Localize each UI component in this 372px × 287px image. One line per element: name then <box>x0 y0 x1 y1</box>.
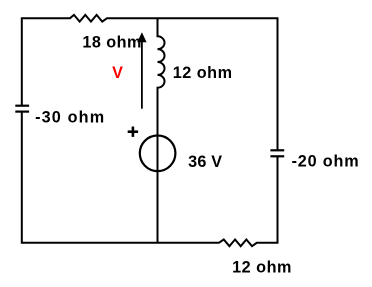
svg-text:18 ohm: 18 ohm <box>82 34 141 52</box>
svg-text:36 V: 36 V <box>188 153 222 171</box>
svg-text:-30 ohm: -30 ohm <box>35 108 104 126</box>
svg-text:V: V <box>112 64 123 82</box>
svg-text:12 ohm: 12 ohm <box>232 259 291 277</box>
svg-text:-20 ohm: -20 ohm <box>292 153 359 171</box>
svg-text:12 ohm: 12 ohm <box>173 64 232 82</box>
